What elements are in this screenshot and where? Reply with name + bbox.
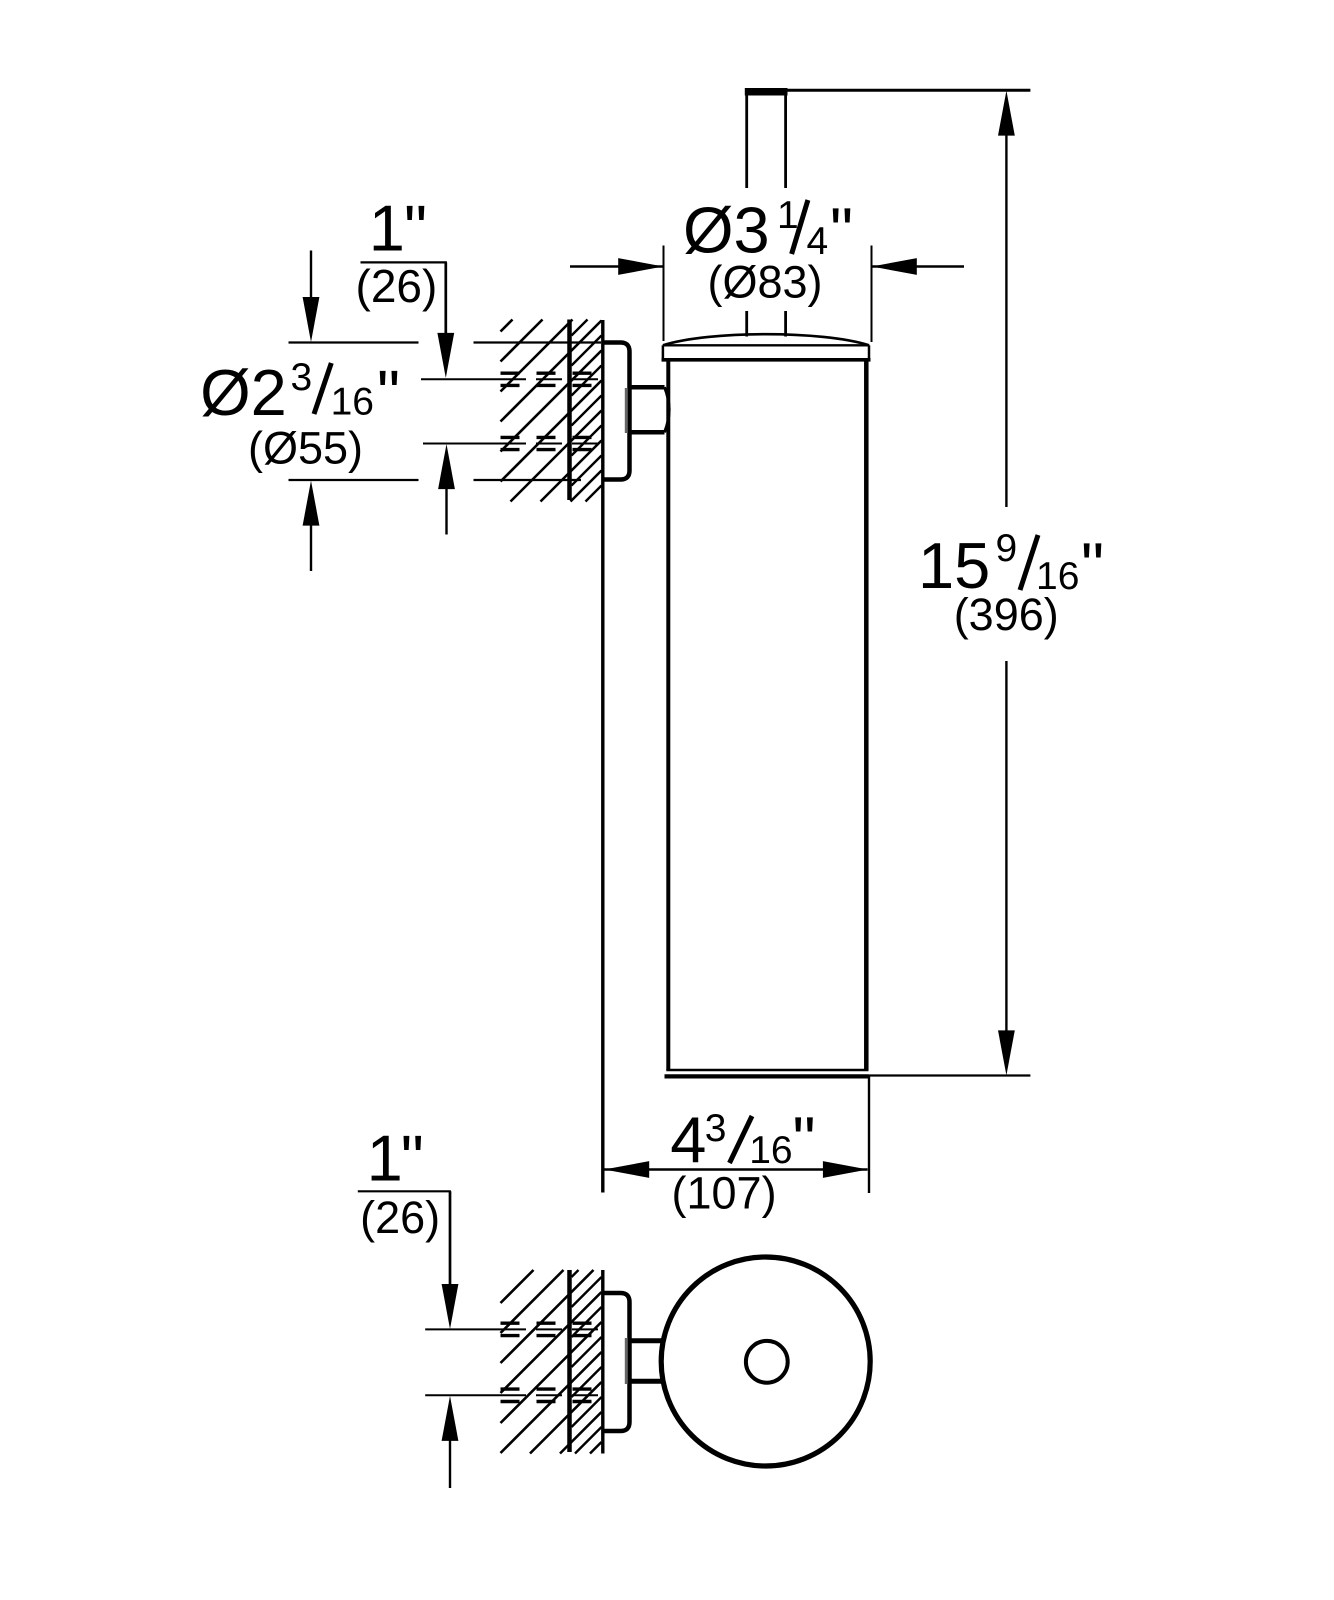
svg-text:9: 9 (996, 527, 1018, 570)
svg-text:(107): (107) (672, 1168, 777, 1219)
svg-text:": " (401, 1122, 424, 1195)
svg-text:(Ø55): (Ø55) (248, 423, 363, 474)
svg-text:3: 3 (291, 356, 313, 399)
svg-text:1: 1 (367, 1122, 403, 1195)
svg-text:(26): (26) (360, 1192, 440, 1243)
svg-text:16: 16 (331, 381, 374, 424)
svg-text:": " (404, 191, 427, 264)
svg-text:": " (1081, 529, 1104, 602)
svg-text:4: 4 (670, 1103, 706, 1176)
svg-text:1: 1 (369, 191, 405, 264)
svg-text:": " (377, 357, 400, 430)
svg-text:": " (830, 194, 853, 267)
svg-text:(Ø83): (Ø83) (708, 257, 823, 308)
svg-text:16: 16 (749, 1129, 792, 1172)
svg-text:(396): (396) (954, 589, 1059, 640)
svg-text:Ø2: Ø2 (200, 356, 287, 429)
svg-text:(26): (26) (356, 260, 438, 312)
svg-text:": " (793, 1103, 816, 1176)
svg-text:1: 1 (777, 194, 799, 237)
svg-text:3: 3 (705, 1107, 727, 1150)
